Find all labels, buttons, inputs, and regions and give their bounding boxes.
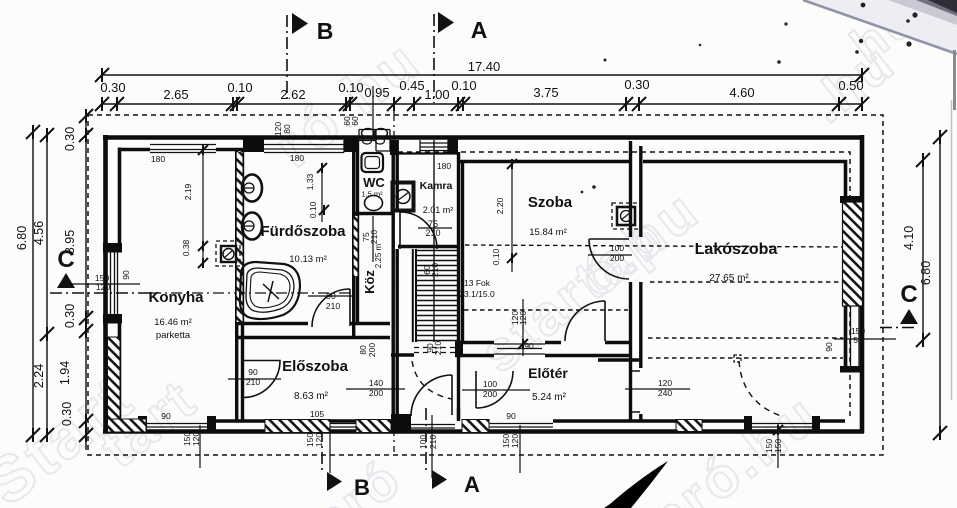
- svg-text:WC: WC: [363, 175, 385, 190]
- window eloter bottom 150: [489, 424, 553, 428]
- svg-text:A: A: [464, 472, 480, 497]
- svg-text:180: 180: [290, 153, 304, 163]
- wall koz right / kamra left: [393, 140, 397, 430]
- svg-text:200: 200: [369, 388, 383, 398]
- left dim line 4.56/2.24: [46, 132, 48, 435]
- boiler dashed square kitchen: [216, 241, 240, 266]
- svg-text:4.10: 4.10: [902, 226, 916, 250]
- svg-text:210: 210: [369, 230, 379, 244]
- szoba vertical dim 2.20/0.10: [511, 163, 513, 272]
- svg-text:2.20: 2.20: [495, 197, 505, 214]
- dim 100/200 szoba right line: [588, 254, 632, 256]
- svg-text:210: 210: [430, 263, 440, 277]
- svg-text:120: 120: [314, 433, 324, 447]
- svg-text:4.60: 4.60: [729, 85, 754, 100]
- svg-text:60: 60: [350, 116, 360, 126]
- svg-text:Szoba: Szoba: [528, 194, 573, 211]
- hatch konyha/furdo divider: [237, 152, 243, 322]
- svg-text:Konyha: Konyha: [148, 289, 204, 306]
- svg-text:0.10: 0.10: [227, 80, 252, 95]
- door eloszoba-eloter arc: [476, 371, 513, 408]
- outer wall top outer line: [103, 135, 864, 140]
- ext line wc door: [372, 216, 374, 262]
- entrance second leaf dashed: [412, 361, 452, 399]
- eaves inner dashed line right part: [398, 152, 850, 420]
- svg-text:4.56: 4.56: [32, 221, 46, 245]
- svg-text:200: 200: [610, 253, 624, 263]
- window right wall 150: [847, 306, 860, 368]
- dim labels top: [100, 59, 863, 102]
- eaves outline dashed rect: [88, 115, 883, 455]
- svg-text:0.30: 0.30: [624, 77, 649, 92]
- svg-text:1.5 m²: 1.5 m²: [361, 190, 383, 199]
- bottom ext line lakoszoba window: [777, 423, 779, 468]
- bath door dim line: [308, 295, 352, 297]
- right dim line 6.80: [939, 137, 941, 433]
- svg-text:parketta: parketta: [156, 330, 191, 341]
- bathtub corner: [240, 262, 300, 319]
- door konyha-eloszoba arc: [243, 361, 280, 398]
- bottom ext line entrance: [431, 415, 433, 478]
- window szoba/eloter interior 90: [494, 344, 545, 354]
- left wall inner line: [118, 148, 122, 422]
- svg-text:0.38: 0.38: [181, 239, 191, 256]
- svg-text:100: 100: [418, 435, 428, 449]
- svg-text:Lakószoba: Lakószoba: [695, 241, 778, 258]
- section marker A top: [433, 14, 435, 103]
- wall szoba/lakoszoba divider: [631, 141, 641, 421]
- svg-text:0.45: 0.45: [399, 78, 424, 93]
- wall konyha/furdoszoba hatched below: [235, 149, 238, 340]
- svg-text:Előtér: Előtér: [528, 365, 568, 381]
- kitchen vertical dim 2.19/0.38: [202, 150, 204, 266]
- svg-text:180: 180: [151, 154, 165, 164]
- window bottom kitchen 150: [146, 424, 209, 428]
- stairs walk line: [433, 140, 435, 342]
- outer wall left outer line: [103, 135, 108, 433]
- window kamra top 180: [420, 140, 448, 152]
- dim 150/50 right line: [834, 338, 896, 340]
- hatch bottom-left corner: [108, 419, 147, 432]
- sink 2 bathroom: [242, 213, 262, 240]
- section line C through kitchen: [150, 292, 352, 294]
- svg-text:27.65 m²: 27.65 m²: [709, 273, 749, 284]
- wc vent ovals: [362, 129, 375, 138]
- wall solid fills: [103, 137, 864, 433]
- wall eloter left lower: [457, 408, 460, 421]
- svg-text:0.10: 0.10: [338, 80, 363, 95]
- svg-text:240: 240: [658, 388, 672, 398]
- svg-text:2.19: 2.19: [183, 183, 193, 200]
- left window dim line: [72, 283, 140, 285]
- window left wall 150: [111, 252, 118, 315]
- bath vertical dim 1.33/0.10: [321, 163, 323, 222]
- svg-text:0.30: 0.30: [60, 402, 74, 426]
- svg-text:23.1/15.0: 23.1/15.0: [459, 289, 495, 299]
- szoba bottom 120 line: [522, 299, 524, 356]
- wall szoba left / kamra right: [457, 152, 460, 419]
- entrance threshold: [411, 425, 455, 429]
- svg-text:0.30: 0.30: [63, 127, 77, 151]
- svg-text:6.80: 6.80: [919, 261, 933, 285]
- hatch bottom wall seg2: [265, 420, 330, 433]
- svg-text:50: 50: [853, 335, 863, 345]
- wall konyha/eloszoba: [235, 340, 238, 421]
- svg-text:105: 105: [310, 409, 324, 419]
- wall kamra/stairs top: [398, 245, 457, 248]
- chimney szoba/lakoszoba: [612, 203, 640, 229]
- section marker B bottom: [321, 430, 323, 471]
- bottom ext line kitchen window: [199, 425, 201, 468]
- svg-text:120: 120: [191, 432, 201, 446]
- wall wc bottom: [354, 212, 392, 215]
- svg-text:2.65: 2.65: [163, 87, 188, 102]
- svg-text:2.01 m²: 2.01 m²: [423, 205, 454, 215]
- top wall inner line kitchen: [120, 148, 265, 152]
- svg-text:5.24 m²: 5.24 m²: [532, 392, 567, 403]
- svg-text:90: 90: [248, 367, 258, 377]
- svg-text:13 Fok: 13 Fok: [464, 278, 491, 288]
- window lakoszoba bottom 150: [751, 424, 813, 428]
- svg-text:B: B: [354, 475, 370, 500]
- svg-text:2.25 m: 2.25 m: [374, 243, 383, 268]
- svg-text:Előszoba: Előszoba: [282, 358, 349, 375]
- wall furdoszoba bottom / eloszoba top: [236, 322, 390, 325]
- svg-text:10.13 m²: 10.13 m²: [289, 254, 327, 265]
- dim 140/200 line: [346, 388, 405, 390]
- svg-text:210: 210: [433, 341, 443, 355]
- svg-text:1.00: 1.00: [424, 87, 449, 102]
- dimension ticks right lines: [916, 153, 930, 167]
- svg-text:6.80: 6.80: [15, 226, 29, 250]
- scan artifact: black wedge bottom center: [604, 461, 668, 508]
- svg-text:150: 150: [773, 439, 783, 453]
- door szoba-eloter arc: [565, 301, 605, 341]
- bottom ext line eloszoba door: [329, 425, 331, 473]
- small dim ticks: [198, 145, 208, 155]
- svg-text:A: A: [471, 17, 488, 43]
- svg-text:100: 100: [610, 243, 624, 253]
- svg-text:100: 100: [483, 379, 497, 389]
- top total dimension line 17.40: [102, 74, 862, 76]
- section marker A bottom: [425, 408, 427, 470]
- left dim line detail: [85, 112, 87, 450]
- svg-text:210: 210: [246, 377, 260, 387]
- section line A vertical through plan: [393, 110, 395, 452]
- door szoba-lakoszoba arc: [589, 239, 629, 279]
- svg-text:210: 210: [425, 228, 440, 238]
- svg-text:Köz: Köz: [362, 270, 377, 294]
- svg-text:0.10: 0.10: [491, 248, 501, 265]
- svg-text:210: 210: [326, 301, 340, 311]
- svg-text:90: 90: [506, 411, 516, 421]
- bottom wall inner line: [120, 419, 846, 423]
- ceiling line lakoszoba y358: [648, 357, 843, 359]
- stairs dashed continuation: [414, 348, 457, 353]
- hatch bottom wall eloter: [462, 420, 489, 433]
- door kamra arc: [400, 212, 437, 249]
- svg-text:0.10: 0.10: [451, 78, 476, 93]
- svg-text:120: 120: [96, 282, 110, 292]
- svg-text:0.30: 0.30: [63, 304, 77, 328]
- hatch furdo/koz divider: [354, 216, 358, 276]
- dim 120/240 line: [625, 388, 690, 390]
- eloter nook line: [598, 358, 640, 361]
- svg-text:90: 90: [161, 411, 171, 421]
- dim 100/200 eloter line: [462, 389, 530, 391]
- window kitchen top 180: [150, 145, 216, 153]
- svg-text:0.10: 0.10: [308, 201, 318, 218]
- lakoszoba terrace door dashed arc: [739, 361, 781, 416]
- hatch bottom wall seg3: [356, 420, 391, 433]
- wc toilet cistern: [362, 153, 384, 172]
- chimney wc/kamra: [393, 183, 414, 211]
- svg-text:Kamra: Kamra: [420, 180, 453, 192]
- hatch bottom wall lakoszoba partial: [676, 420, 702, 432]
- ceiling line szoba y310: [464, 309, 628, 311]
- svg-text:1.33: 1.33: [305, 173, 315, 190]
- window bathroom top 180: [264, 140, 344, 153]
- kamra door dim line: [418, 227, 452, 229]
- svg-text:200: 200: [367, 343, 377, 357]
- wall stairs left: [413, 249, 416, 342]
- hatch right wall segment: [843, 202, 863, 306]
- door eloszoba bottom 105: [330, 424, 356, 428]
- sink 1 bathroom: [242, 175, 262, 202]
- svg-text:Fürdőszoba: Fürdőszoba: [261, 223, 347, 240]
- svg-text:90: 90: [824, 342, 834, 352]
- wall szoba bottom / eloter top: [455, 341, 632, 344]
- svg-text:2.24: 2.24: [32, 364, 46, 388]
- wc top vent: [359, 130, 390, 152]
- entrance door arc: [411, 375, 452, 416]
- hatch left wall cavity: [108, 337, 121, 419]
- scan specks: [861, 3, 866, 8]
- top segment dimension line: [102, 103, 862, 105]
- svg-text:120: 120: [658, 378, 672, 388]
- svg-text:0.95: 0.95: [364, 85, 389, 100]
- svg-text:17.40: 17.40: [468, 59, 501, 74]
- ceiling line lakoszoba y282: [650, 281, 845, 283]
- wc toilet bowl: [365, 196, 383, 211]
- svg-text:210: 210: [428, 435, 438, 449]
- svg-text:16.46 m²: 16.46 m²: [154, 317, 192, 328]
- section marker B top: [286, 15, 288, 103]
- svg-text:C: C: [900, 281, 917, 308]
- svg-text:B: B: [317, 18, 334, 44]
- door furdoszoba arc: [312, 289, 350, 327]
- dimension ticks top lines: [95, 68, 109, 82]
- right dim line 4.10: [922, 160, 924, 340]
- svg-text:15.84 m²: 15.84 m²: [529, 227, 567, 238]
- svg-text:2.62: 2.62: [280, 87, 305, 102]
- svg-text:1.94: 1.94: [58, 361, 72, 385]
- outer wall right outer line: [860, 135, 865, 433]
- wall kamra top inner line: [398, 152, 457, 154]
- svg-text:C: C: [57, 246, 74, 273]
- left dim line 6.80: [32, 132, 34, 435]
- ceiling line szoba/lakoszoba y246: [465, 245, 845, 247]
- bottom ext line eloter window: [519, 425, 521, 473]
- svg-text:90: 90: [326, 291, 336, 301]
- svg-text:90: 90: [121, 270, 131, 280]
- top wall inner line szoba/lakoszoba: [457, 162, 846, 165]
- door eloter-lakoszoba opening: [632, 371, 640, 412]
- svg-text:120: 120: [518, 311, 528, 325]
- svg-text:0.30: 0.30: [100, 80, 125, 95]
- svg-text:200: 200: [483, 389, 497, 399]
- wall furdo/koz divider: [352, 140, 355, 338]
- wall under stairs horizontal: [391, 353, 414, 356]
- svg-text:90: 90: [524, 341, 534, 351]
- stairs treads: [416, 140, 457, 342]
- ext line wc window center: [372, 86, 374, 140]
- right wall inner line: [844, 164, 848, 368]
- svg-text:80: 80: [282, 124, 292, 134]
- outer wall bottom outer line: [103, 429, 864, 434]
- svg-text:140: 140: [369, 378, 383, 388]
- scan artifact: page corner top-right: [805, 0, 957, 53]
- svg-text:3.75: 3.75: [533, 85, 558, 100]
- svg-text:0.50: 0.50: [838, 78, 863, 93]
- svg-text:8.63 m²: 8.63 m²: [294, 391, 329, 402]
- konyha door dim line: [228, 378, 281, 380]
- dimension ticks left lines: [26, 125, 40, 139]
- svg-text:180: 180: [437, 161, 451, 171]
- ceiling line lakoszoba y338: [648, 337, 843, 339]
- svg-text:120: 120: [510, 434, 520, 448]
